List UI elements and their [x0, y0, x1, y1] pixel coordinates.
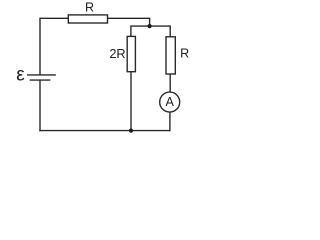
node junction dot top [148, 24, 152, 28]
wire parallel bus [131, 25, 170, 27]
battery top plate [27, 74, 56, 76]
wire bottom horizontal [39, 130, 170, 132]
wire top-left horizontal [40, 17, 68, 19]
wire 2R to bottom node [130, 72, 132, 131]
wire left branch drop [130, 25, 132, 36]
resistor R2 (right) box [166, 37, 175, 74]
svg-text:A: A [165, 95, 174, 109]
svg-text:2R: 2R [109, 46, 125, 61]
wire left vertical upper [39, 18, 41, 75]
wire right branch drop [169, 25, 171, 36]
wire left vertical lower [39, 80, 41, 131]
resistor 2R box [127, 36, 135, 71]
battery bottom plate [30, 79, 51, 81]
battery EMF source plates [27, 75, 56, 80]
wire ammeter to bottom corner [169, 112, 171, 131]
wire resistor to corner [108, 17, 151, 19]
ammeter A1 circle [160, 92, 180, 112]
resistor R1 (top) box [68, 15, 107, 23]
svg-text:R: R [180, 47, 189, 61]
wire R2 to ammeter [169, 74, 171, 92]
svg-text:ε: ε [16, 65, 25, 86]
wire corner down to node [149, 18, 151, 26]
svg-text:R: R [85, 1, 94, 15]
node junction dot bottom [129, 129, 133, 133]
